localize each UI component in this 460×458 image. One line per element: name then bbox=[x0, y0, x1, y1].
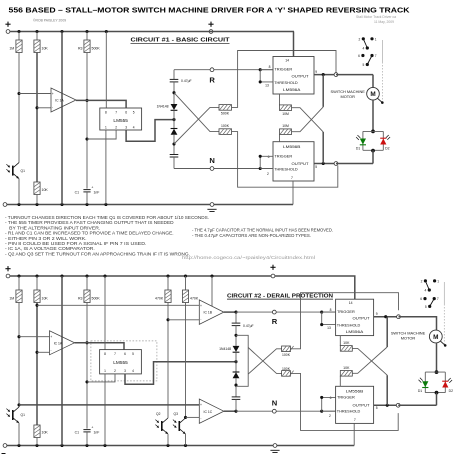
terminal R c1 bbox=[210, 68, 214, 72]
terminal c2 0V mid bbox=[273, 444, 277, 448]
svg-text:5: 5 bbox=[133, 110, 135, 114]
op-amp IC1A comparator c1 bbox=[51, 88, 76, 112]
svg-text:3: 3 bbox=[125, 125, 127, 129]
svg-text:7: 7 bbox=[375, 54, 377, 58]
svg-text:R: R bbox=[209, 76, 215, 85]
wire trigger B c1 bbox=[260, 156, 273, 168]
capacitor C11 1nF c2 bbox=[83, 425, 93, 432]
wire LED bridge frame c2 bbox=[425, 372, 445, 393]
svg-text:4: 4 bbox=[132, 369, 134, 373]
wire C1 to bottom rail bbox=[86, 192, 88, 205]
svg-text:5: 5 bbox=[315, 165, 317, 169]
svg-text:4: 4 bbox=[363, 47, 365, 51]
svg-text:100K: 100K bbox=[221, 124, 230, 128]
IC U2A LM556A c1 bbox=[273, 57, 314, 95]
diode D3 1N4148 bbox=[171, 104, 178, 110]
node threshold A c2 bbox=[320, 323, 323, 326]
wire threshold B c2 bbox=[322, 410, 336, 412]
node comparator output pullup bbox=[85, 99, 88, 102]
LED D12 red c2 bbox=[442, 378, 452, 388]
terminal circuit 1 0V mid bbox=[210, 203, 214, 207]
svg-text:R3: R3 bbox=[78, 296, 83, 300]
terminal N c2 bbox=[272, 409, 276, 413]
svg-text:7: 7 bbox=[115, 110, 117, 114]
wire R6 to output B feedback bbox=[232, 132, 338, 188]
terminal N c1 bbox=[210, 167, 214, 171]
svg-text:2: 2 bbox=[329, 414, 331, 418]
wire 555 pin 3 output to steering diodes bbox=[126, 120, 172, 142]
svg-text:10K: 10K bbox=[42, 431, 49, 435]
phototransistor Q2 bbox=[155, 412, 168, 434]
svg-text:THRESHOLD: THRESHOLD bbox=[337, 409, 361, 414]
wire mid column cap upper c2 bbox=[235, 312, 237, 323]
svg-text:1: 1 bbox=[105, 125, 107, 129]
svg-text:0.47µF: 0.47µF bbox=[243, 324, 254, 328]
circuit 2 section header bbox=[227, 293, 333, 299]
svg-text:470K: 470K bbox=[155, 296, 164, 300]
wire IC1A - input bbox=[37, 107, 51, 109]
wire block B to R8 bbox=[279, 134, 281, 142]
wire R2 to inverting input to R4 bbox=[36, 53, 38, 183]
svg-text:6: 6 bbox=[330, 396, 332, 400]
wire R18 to output B feedback c2 bbox=[290, 373, 398, 430]
wire R8 to cross bus bbox=[292, 107, 324, 132]
IC U2B LM556B c1 bbox=[273, 142, 314, 181]
svg-text:2: 2 bbox=[359, 37, 361, 41]
capacitor C1 1nF bbox=[83, 185, 93, 192]
wire IC1B - input c2 bbox=[168, 319, 199, 321]
svg-text:Stall Motor Track Driver ca: Stall Motor Track Driver ca bbox=[356, 15, 396, 19]
node bottom rail junctions c2 bbox=[17, 444, 20, 447]
node LED bridge top c1 bbox=[371, 130, 375, 134]
op-amp IC1B c2 bbox=[199, 300, 224, 324]
svg-text:N: N bbox=[209, 156, 214, 165]
wire bottom rail c2 bbox=[5, 445, 354, 447]
svg-text:Q1: Q1 bbox=[21, 413, 26, 417]
svg-text:10K: 10K bbox=[42, 296, 49, 300]
svg-text:10K: 10K bbox=[343, 366, 350, 370]
wire 470K-B branch upper c2 bbox=[185, 276, 187, 290]
svg-text:7: 7 bbox=[114, 352, 116, 356]
wire motor to LED bridge c1 bbox=[372, 100, 374, 131]
resistor R16 470K bbox=[182, 290, 188, 303]
node IC1A - input c2 bbox=[35, 351, 38, 354]
svg-text:6: 6 bbox=[124, 352, 126, 356]
wire diagonal to R18 c2 bbox=[248, 348, 281, 374]
resistor R8 10M bbox=[280, 129, 292, 135]
svg-text:N: N bbox=[272, 399, 277, 408]
svg-text:M: M bbox=[370, 91, 375, 98]
svg-text:+: + bbox=[52, 92, 54, 96]
resistor R5 500K cross bbox=[219, 105, 232, 111]
ground symbol c1 bbox=[207, 209, 216, 211]
resistor R12 10K c2 bbox=[34, 290, 40, 303]
resistor R17 100K cross c2 bbox=[282, 346, 294, 352]
wire mid vertical rail-to-rail c1 bbox=[61, 32, 63, 205]
svg-text:1: 1 bbox=[104, 369, 106, 373]
svg-text:D2: D2 bbox=[385, 147, 389, 151]
svg-text:THRESHOLD: THRESHOLD bbox=[274, 166, 298, 171]
wire cross coupling diagonal to R5 bbox=[174, 107, 219, 144]
node diode bottom c2 bbox=[234, 384, 237, 387]
node output A branch c2 bbox=[384, 315, 387, 318]
positive terminal + (circuit 1 left) bbox=[5, 22, 10, 27]
svg-text:- THE 0.47µF CAPACITORS ARE NO: - THE 0.47µF CAPACITORS ARE NON-POLARIZE… bbox=[192, 233, 311, 238]
wire cross coupling diagonal to R6 bbox=[174, 93, 219, 132]
wire trigger B c2 bbox=[322, 397, 336, 411]
terminal R c2 bbox=[272, 310, 276, 314]
wire output A c2 bbox=[374, 316, 399, 318]
svg-text:- Q2 AND Q3 SET THE TURNOUT FO: - Q2 AND Q3 SET THE TURNOUT FOR AN APPRO… bbox=[5, 251, 190, 256]
wire output B feedback bus c2 bbox=[386, 375, 388, 405]
wire diode to lower node c2 bbox=[235, 378, 237, 396]
mechanical link switch to motor c2 bbox=[443, 282, 445, 345]
svg-text:1M: 1M bbox=[9, 296, 14, 300]
diode D13 1N4148 c2 bbox=[233, 346, 240, 352]
wire C11 to rail c2 bbox=[86, 432, 88, 446]
node diode bottom c1 bbox=[172, 142, 175, 145]
wire threshold A c1 bbox=[260, 70, 273, 82]
wire block A to R19 c2 bbox=[339, 336, 341, 346]
node threshold A c1 bbox=[259, 80, 262, 83]
svg-text:10K: 10K bbox=[343, 341, 350, 345]
wire IC1C - input c2 bbox=[186, 416, 200, 418]
LED D11 green c2 bbox=[419, 378, 429, 388]
wire IC1A + input bbox=[19, 93, 51, 95]
svg-text:R3: R3 bbox=[78, 46, 83, 50]
LED D1 green c1 bbox=[356, 135, 366, 145]
svg-text:2: 2 bbox=[115, 125, 117, 129]
wire IC1B output to R row c2 bbox=[224, 311, 236, 313]
IC U1 LM555 timer c1 bbox=[100, 108, 142, 130]
svg-text:TRIGGER: TRIGGER bbox=[274, 153, 292, 158]
wire output A to motor c1 bbox=[336, 74, 373, 76]
svg-text:10M: 10M bbox=[282, 124, 289, 128]
svg-text:CIRCUIT #2 - DERAIL PROTECTION: CIRCUIT #2 - DERAIL PROTECTION bbox=[227, 293, 333, 299]
wire R4 to bottom rail bbox=[36, 195, 38, 205]
wire cap to N row c2 bbox=[235, 399, 237, 411]
svg-text:556 BASED – STALL–MOTOR SWITCH: 556 BASED – STALL–MOTOR SWITCH MACHINE D… bbox=[9, 7, 411, 15]
node trigger B c1 bbox=[259, 155, 262, 158]
svg-text:+: + bbox=[91, 185, 93, 189]
svg-text:+: + bbox=[50, 335, 52, 339]
resistor R15 470K bbox=[165, 290, 171, 303]
wire N terminal row c1 bbox=[174, 168, 273, 170]
wire cross elbow upper c2 bbox=[236, 335, 248, 386]
svg-text:9: 9 bbox=[376, 312, 378, 316]
svg-text:1: 1 bbox=[437, 279, 439, 283]
phototransistor Q1 bbox=[6, 163, 25, 179]
phototransistor Q1 c2 bbox=[6, 407, 25, 423]
svg-text:10M: 10M bbox=[282, 112, 289, 116]
svg-text:1N4148: 1N4148 bbox=[157, 104, 169, 108]
terminal output A c1 bbox=[334, 73, 338, 77]
svg-text:LM555: LM555 bbox=[113, 118, 128, 123]
wire diagonal to R17 c2 bbox=[248, 349, 281, 374]
capacitor C13 0.47uF c2 lower bbox=[232, 397, 241, 400]
svg-text:1nF: 1nF bbox=[94, 191, 100, 195]
IC U3 LM555 timer c2 bbox=[100, 350, 142, 374]
wire R13 to output node c2 bbox=[86, 303, 88, 429]
svg-text:1M: 1M bbox=[9, 46, 14, 50]
svg-text:THRESHOLD: THRESHOLD bbox=[337, 323, 361, 328]
resistor R2 10K bbox=[34, 40, 40, 53]
terminal output B c1 bbox=[334, 162, 338, 166]
node output B branch c2 bbox=[386, 404, 389, 407]
wire IC1B + input c2 bbox=[37, 304, 199, 306]
wire R3 to comparator output node bbox=[86, 53, 88, 189]
notes list circuit 1 bbox=[5, 215, 209, 257]
wire R14 to rail c2 bbox=[36, 438, 38, 446]
wire mid vertical rail-to-rail c2 bbox=[61, 276, 63, 446]
svg-text:OUTPUT: OUTPUT bbox=[292, 73, 310, 78]
svg-text:5: 5 bbox=[132, 352, 134, 356]
svg-text:LM556A: LM556A bbox=[283, 87, 301, 92]
wire trigger A c1 bbox=[260, 69, 273, 71]
circuit 1 section header bbox=[131, 38, 231, 44]
svg-text:R: R bbox=[272, 317, 278, 326]
diode D4 bbox=[171, 129, 178, 135]
wire R15 to Q2 c2 bbox=[167, 303, 169, 419]
wire rail to 556 pin 14 c2 bbox=[275, 276, 355, 299]
positive terminal + c2 left bbox=[5, 266, 10, 271]
wire block A to R7 bbox=[279, 94, 281, 105]
wire R5 to output A feedback bbox=[232, 51, 337, 108]
node 555 output junction c1 bbox=[172, 118, 175, 121]
node LED bridge bottom c2 bbox=[435, 391, 439, 395]
node comparator output pullup c2 bbox=[85, 341, 88, 344]
positive terminal + (circuit 1 mid) bbox=[208, 22, 213, 27]
wire R12 chain c2 bbox=[36, 303, 38, 426]
motor M1 switch machine c1 bbox=[367, 87, 384, 104]
svg-text:500K: 500K bbox=[221, 112, 230, 116]
svg-text:D1: D1 bbox=[356, 147, 360, 151]
terminal c2 +V mid bbox=[271, 274, 275, 278]
svg-text:OUTPUT: OUTPUT bbox=[353, 403, 371, 408]
svg-text:http://home.cogeco.ca/~rpaisle: http://home.cogeco.ca/~rpaisley4/Circuit… bbox=[182, 255, 315, 260]
wire output A feedback bus c2 bbox=[386, 317, 388, 347]
svg-text:+: + bbox=[200, 403, 202, 407]
wire IC1A output to 555 pin6 bbox=[76, 100, 126, 108]
svg-text:8: 8 bbox=[269, 65, 271, 69]
resistor R19 10K cross c2 bbox=[340, 346, 352, 352]
wire output B c2 bbox=[374, 404, 399, 406]
wire R20 to cross bus c2 bbox=[352, 347, 387, 373]
diode D14 c2 bbox=[233, 372, 240, 378]
svg-text:470K: 470K bbox=[190, 296, 199, 300]
svg-text:6: 6 bbox=[358, 54, 360, 58]
svg-text:5: 5 bbox=[363, 63, 365, 67]
wire motor top c1 bbox=[372, 75, 374, 88]
wire motor to LED bridge c2 bbox=[436, 343, 438, 372]
IC U4A LM556A c2 bbox=[336, 299, 374, 335]
wire R12 branch upper c2 bbox=[36, 276, 38, 290]
svg-text:4: 4 bbox=[425, 289, 427, 293]
node IC1A - input junction bbox=[35, 106, 38, 109]
svg-text:- THE 4.7µF CAPACITOR AT THE N: - THE 4.7µF CAPACITOR AT THE NORMAL INPU… bbox=[192, 227, 333, 232]
svg-text:MOTOR: MOTOR bbox=[401, 335, 416, 340]
svg-text:TRIGGER: TRIGGER bbox=[274, 66, 292, 71]
svg-text:IC 1A: IC 1A bbox=[55, 99, 64, 103]
svg-text:7: 7 bbox=[291, 176, 293, 180]
wire diode mid c2 bbox=[235, 352, 237, 372]
node 555 output junction c2 bbox=[234, 360, 237, 363]
wire cap to diode node bbox=[173, 82, 175, 104]
capacitor C3 0.47uF c1 lower bbox=[170, 155, 179, 158]
wire trigger A c2 bbox=[322, 311, 336, 313]
switch S2 DPDT c2 bbox=[420, 279, 439, 309]
wire R16 to Q3 c2 bbox=[185, 303, 187, 419]
node 555 trigger junction c2 bbox=[85, 380, 88, 383]
resistor R3 500K bbox=[84, 40, 90, 53]
svg-text:13: 13 bbox=[265, 83, 269, 87]
wire output A feedback bus bbox=[322, 75, 324, 107]
wire cap to N row bbox=[173, 157, 175, 169]
wire R13 branch upper c2 bbox=[86, 276, 88, 290]
node bottom rail junctions c1 bbox=[17, 203, 20, 206]
mechanical link switch to motor c1 bbox=[381, 40, 383, 101]
wire IC1A output to 555 pin 6 c2 bbox=[75, 343, 125, 350]
wire Q1 emitter to rail c2 bbox=[18, 423, 20, 446]
wire output B to LED bridge c2 bbox=[398, 404, 436, 406]
svg-text:2: 2 bbox=[114, 369, 116, 373]
wire top supply rail c2 bbox=[10, 275, 271, 277]
svg-text:14: 14 bbox=[285, 59, 289, 63]
node IC1B - input c2 bbox=[166, 318, 169, 321]
svg-text:6: 6 bbox=[420, 297, 422, 301]
node top rail junctions c2 bbox=[17, 274, 20, 277]
wire 470K-A branch upper c2 bbox=[167, 276, 169, 290]
svg-text:C1: C1 bbox=[75, 431, 79, 435]
node IC1A + input c2 bbox=[17, 335, 20, 338]
wire bottom rail circuit 1 bbox=[5, 204, 293, 206]
wire 555 pin 3 output c2 bbox=[125, 362, 235, 385]
wire bridge bottom to output B row c1 bbox=[372, 150, 374, 163]
svg-text:D2: D2 bbox=[449, 389, 453, 393]
resistor R4 10K lower bbox=[34, 182, 40, 195]
node R to threshold junction c1 bbox=[259, 68, 262, 71]
wire N row c2 bbox=[236, 410, 336, 412]
resistor R14 10K lower c2 bbox=[34, 425, 40, 438]
wire R2 branch upper bbox=[36, 32, 38, 41]
svg-text:3: 3 bbox=[124, 369, 126, 373]
phototransistor Q3 bbox=[173, 412, 186, 434]
wire diode to lower node bbox=[173, 135, 175, 155]
dashed outline around 555 c2 bbox=[91, 341, 157, 381]
node IC1B + junction c2 bbox=[35, 304, 38, 307]
svg-text:5: 5 bbox=[376, 406, 378, 410]
svg-text:1: 1 bbox=[375, 37, 377, 41]
wire output A c1 bbox=[314, 74, 336, 76]
svg-text:6: 6 bbox=[268, 155, 270, 159]
resistor R18 100K cross c2 bbox=[282, 371, 294, 377]
terminal output B c2 bbox=[396, 403, 400, 407]
svg-text:13: 13 bbox=[327, 326, 331, 330]
wire 555 pin 2 to trigger node bbox=[87, 130, 116, 139]
svg-text:Q3: Q3 bbox=[174, 412, 179, 416]
minus terminal mark c2 bbox=[2, 453, 6, 455]
IC U4B LM556B c2 bbox=[336, 386, 374, 423]
svg-text:10K: 10K bbox=[42, 188, 49, 192]
terminal output A c2 bbox=[397, 315, 401, 319]
wire rail to IC1B top c2 bbox=[211, 276, 213, 306]
label switch machine motor c2 bbox=[391, 331, 426, 341]
wire output A to motor c2 bbox=[399, 317, 437, 331]
svg-text:CIRCUIT #1 - BASIC CIRCUIT: CIRCUIT #1 - BASIC CIRCUIT bbox=[131, 38, 231, 44]
author date note bbox=[356, 15, 396, 24]
wire 556 pin 7 to rail c2 bbox=[353, 423, 355, 445]
wire +V to 556 pin 14 c1 bbox=[293, 32, 295, 57]
wire threshold A c2 bbox=[322, 312, 336, 325]
svg-text:LM556B: LM556B bbox=[346, 389, 364, 394]
terminal c2 +V left bbox=[6, 274, 10, 278]
wire R1 to IC1A noninverting input bbox=[18, 53, 20, 163]
node N threshold junction c2 bbox=[320, 410, 323, 413]
wire 556 pin 7 to bottom rail c1 bbox=[292, 181, 294, 205]
svg-text:BY THE ALTERNATING INPUT DRIVE: BY THE ALTERNATING INPUT DRIVER. bbox=[5, 225, 100, 230]
svg-text:500K: 500K bbox=[92, 46, 101, 50]
svg-text:2: 2 bbox=[421, 279, 423, 283]
wire IC1C output c2 bbox=[224, 410, 236, 412]
wire R terminal row c1 bbox=[174, 69, 273, 71]
wire R11 to IC1A input c2 bbox=[18, 303, 20, 408]
wire R11 branch upper c2 bbox=[18, 276, 20, 290]
wire Q1 emitter to bottom rail bbox=[18, 179, 20, 205]
wire R row c2 bbox=[236, 311, 336, 313]
motor M2 switch machine c2 bbox=[429, 330, 446, 347]
resistor R6 100K cross bbox=[219, 129, 232, 135]
ground symbol c2 bbox=[270, 450, 279, 452]
svg-text:10K: 10K bbox=[42, 46, 49, 50]
terminal circuit 1 +V mid bbox=[209, 30, 213, 34]
svg-text:IC 1B: IC 1B bbox=[204, 311, 213, 315]
node 555 trigger junction bbox=[85, 137, 88, 140]
wire top supply rail circuit 1 bbox=[10, 31, 294, 33]
svg-text:8: 8 bbox=[105, 110, 107, 114]
wire IC1A + input c2 bbox=[19, 336, 50, 338]
wire 555 pin 2 c2 bbox=[87, 374, 115, 382]
node trigger B c2 bbox=[320, 396, 323, 399]
svg-text:TRIGGER: TRIGGER bbox=[337, 309, 355, 314]
svg-text:2: 2 bbox=[267, 172, 269, 176]
label switch machine motor c1 bbox=[331, 89, 366, 99]
svg-text:LM556B: LM556B bbox=[283, 144, 301, 149]
svg-text:8: 8 bbox=[104, 352, 106, 356]
wire bridge bottom to output row c2 bbox=[436, 393, 438, 406]
wire Q3 emitter to rail c2 bbox=[185, 434, 187, 446]
wire 555 pin 1 to bottom rail bbox=[105, 130, 107, 205]
wire IC1A - input c2 bbox=[37, 351, 50, 353]
wire 555 pin 8 to +V bbox=[105, 32, 107, 109]
svg-text:Q1: Q1 bbox=[21, 169, 26, 173]
svg-text:MOTOR: MOTOR bbox=[340, 94, 355, 99]
svg-text:THRESHOLD: THRESHOLD bbox=[274, 80, 298, 85]
node top rail junctions c1 bbox=[17, 30, 20, 33]
svg-text:M: M bbox=[433, 334, 438, 341]
wire block B to R20 c2 bbox=[339, 376, 341, 387]
wire threshold B c1 bbox=[260, 168, 273, 170]
node IC1C output c2 bbox=[234, 410, 237, 413]
resistor R11 1M c2 bbox=[16, 290, 22, 303]
node R trigger junction c2 bbox=[320, 311, 323, 314]
svg-text:4: 4 bbox=[133, 125, 135, 129]
svg-text:1nF: 1nF bbox=[94, 431, 100, 435]
op-amp IC1C c2 bbox=[199, 399, 224, 423]
node diode top c2 bbox=[234, 334, 237, 337]
terminal c2 0V left bbox=[3, 444, 7, 448]
svg-text:11 May, 2009: 11 May, 2009 bbox=[374, 20, 394, 24]
svg-text:9: 9 bbox=[315, 70, 317, 74]
